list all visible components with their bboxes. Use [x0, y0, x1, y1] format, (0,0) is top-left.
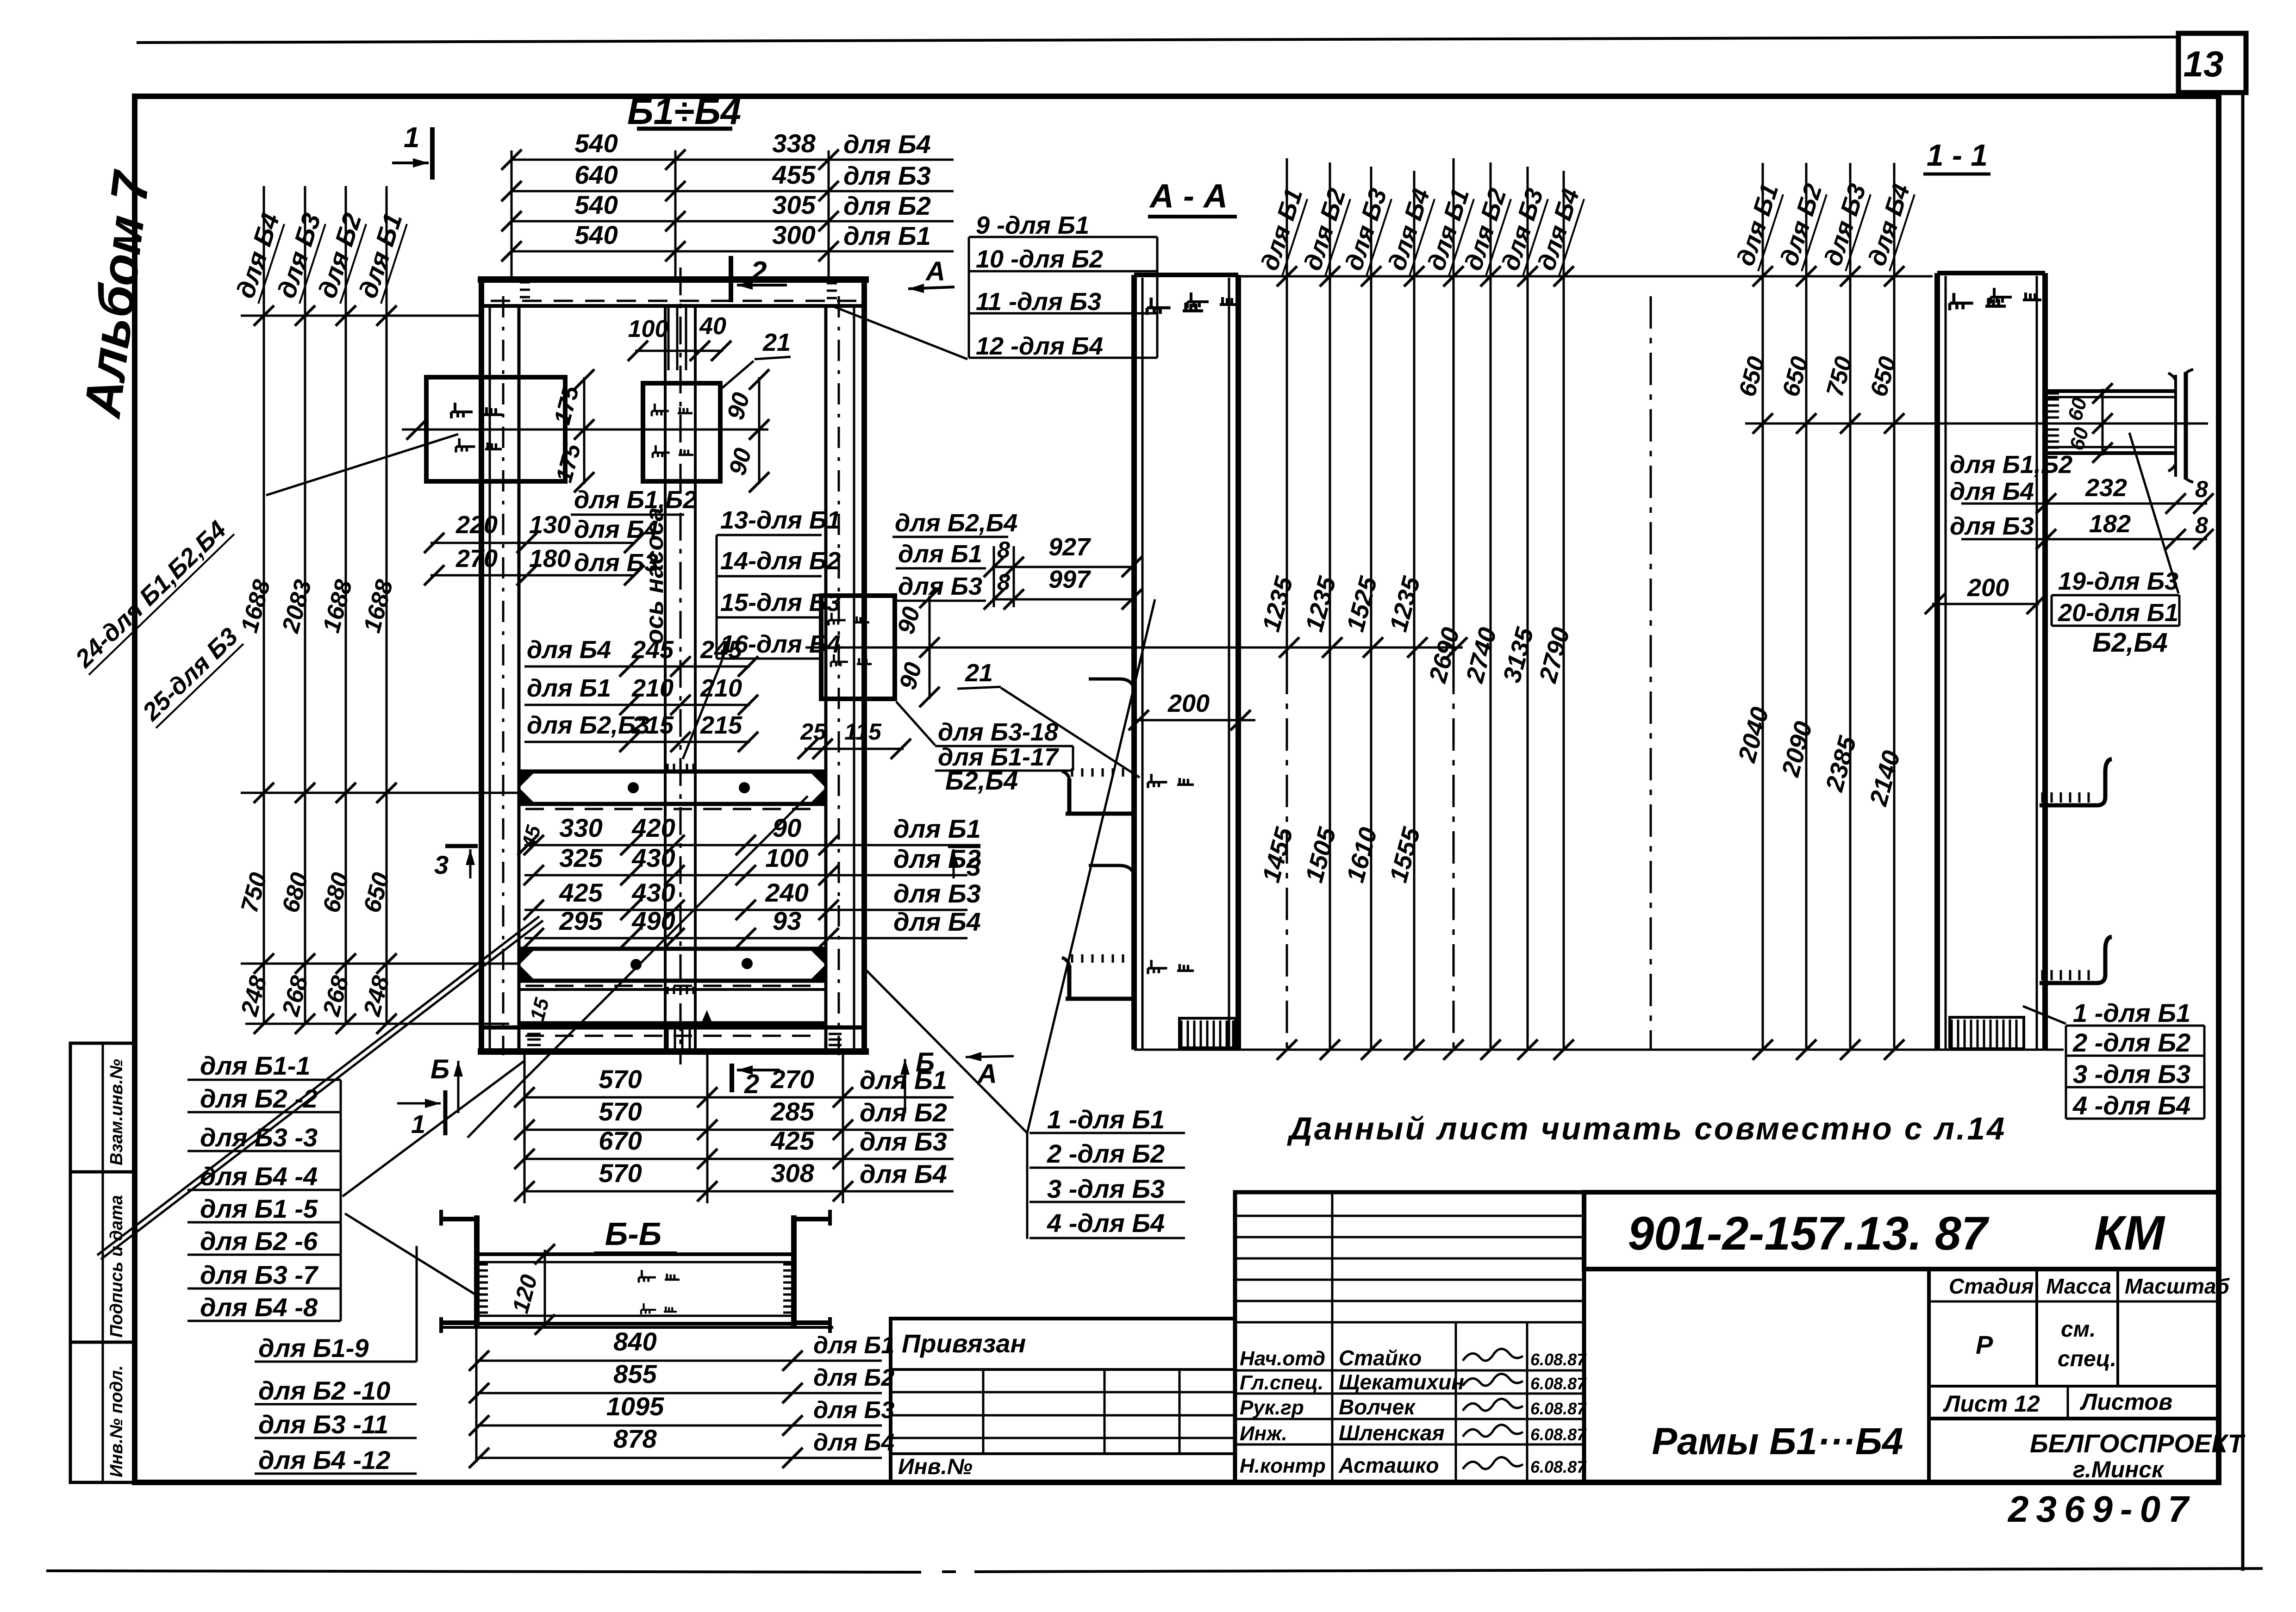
A-A tall dimension lines group1: [1286, 158, 1288, 662]
svg-text:для Б1-1: для Б1-1: [200, 1051, 311, 1080]
svg-text:1 -для Б1: 1 -для Б1: [1047, 1105, 1165, 1134]
plan top dim line 540/338 для Б4: [512, 159, 954, 161]
svg-text:Б-Б: Б-Б: [605, 1216, 661, 1252]
svg-text:21: 21: [965, 659, 993, 687]
svg-text:для Б2 -2: для Б2 -2: [200, 1084, 318, 1113]
svg-text:4 -для Б4: 4 -для Б4: [2072, 1091, 2190, 1120]
svg-text:285: 285: [770, 1097, 814, 1126]
gusset plate on right column: [821, 596, 895, 699]
pump strip hatch top: [668, 307, 670, 370]
A-A bottom hatch block: [1179, 1018, 1235, 1048]
diagonal leader to right bottom table: [866, 970, 1027, 1133]
leader to bottom right table: [2023, 1006, 2066, 1024]
bottom rows extension lines: [524, 1053, 526, 1203]
svg-text:для Б2,Б3: для Б2,Б3: [527, 711, 649, 739]
hatch right end bottom beam: [829, 1027, 842, 1030]
svg-text:для Б3: для Б3: [860, 1127, 947, 1156]
svg-text:для Б2: для Б2: [860, 1098, 947, 1127]
dim 25/115 near right column: [805, 748, 904, 750]
svg-text:ось насоса: ось насоса: [641, 507, 668, 644]
rivet dots upper bar: [628, 782, 639, 793]
plan bottom dimension rows 570/270: [524, 1096, 954, 1099]
svg-text:215: 215: [700, 711, 742, 739]
svg-text:для Б2,Б4: для Б2,Б4: [895, 509, 1017, 537]
left stamp boxes: [70, 1043, 135, 1482]
pump strip hatch bottom: [667, 1026, 669, 1050]
svg-text:420: 420: [631, 813, 675, 842]
dims 220/130 and 270/180 block: [430, 542, 636, 544]
svg-text:25: 25: [800, 719, 827, 745]
svg-text:220: 220: [455, 511, 498, 539]
leader to table 9-12: [833, 306, 967, 359]
second lower bar: [519, 988, 826, 991]
svg-text:для Б1: для Б1: [843, 221, 931, 250]
A-A bracket lower: [1089, 865, 1135, 996]
svg-text:8: 8: [2195, 476, 2208, 502]
svg-text:425: 425: [559, 878, 603, 907]
svg-text:Б2,Б4: Б2,Б4: [945, 766, 1018, 795]
svg-text:Рамы Б1···Б4: Рамы Б1···Б4: [1652, 1420, 1903, 1463]
svg-text:670: 670: [599, 1126, 642, 1155]
svg-text:4 -для Б4: 4 -для Б4: [1047, 1208, 1165, 1238]
svg-text:Рук.гр: Рук.гр: [1240, 1396, 1304, 1419]
left dim crossing line mid: [241, 792, 519, 794]
section mark 1 top left: [430, 127, 435, 180]
plan left column hatch at top: [520, 281, 530, 284]
dim 60/60: [2102, 389, 2104, 455]
svg-text:3: 3: [434, 850, 449, 879]
svg-text:40: 40: [699, 313, 726, 340]
svg-text:180: 180: [529, 545, 571, 573]
diagonal leader to left table: [343, 1061, 524, 1196]
svg-text:1 - 1: 1 - 1: [1927, 138, 1988, 172]
plan right column: [824, 306, 828, 1051]
stadiya massa masshtab header: [1584, 1267, 2219, 1271]
lower horizontal bar: [519, 947, 826, 951]
paper top edge line: [137, 37, 2178, 43]
1-1 weld marks top: [1950, 293, 2006, 310]
left dim crossing line top: [241, 315, 481, 317]
mid dimension rows 330/420/90: [524, 844, 967, 846]
svg-text:для Б1: для Б1: [893, 814, 981, 843]
svg-text:для Б1,Б2: для Б1,Б2: [1950, 451, 2072, 479]
svg-text:325: 325: [559, 843, 603, 872]
drawing frame border: [135, 96, 2219, 1482]
svg-text:308: 308: [771, 1158, 814, 1188]
extension lines 8 dim: [993, 546, 995, 607]
svg-text:Инв.№ подл.: Инв.№ подл.: [107, 1365, 126, 1477]
pump strip hatch at bars: [667, 764, 669, 771]
svg-text:425: 425: [770, 1126, 814, 1155]
dim 175/175 vertical: [583, 377, 586, 484]
svg-text:540: 540: [574, 129, 618, 158]
svg-text:490: 490: [631, 906, 675, 935]
svg-text:295: 295: [559, 906, 603, 935]
svg-text:для Б4: для Б4: [860, 1159, 947, 1189]
svg-text:для Б2: для Б2: [843, 191, 931, 220]
svg-text:232: 232: [2085, 474, 2127, 502]
svg-text:Инж.: Инж.: [1240, 1422, 1287, 1445]
svg-text:для Б1: для Б1: [898, 540, 982, 568]
plan left column: [479, 280, 484, 1053]
group2 dimension lines: [1762, 163, 1764, 1050]
svg-text:330: 330: [559, 813, 602, 842]
svg-text:2: 2: [744, 1069, 759, 1099]
svg-text:Привязан: Привязан: [902, 1329, 1026, 1358]
leader to table 19/20: [2129, 433, 2178, 593]
svg-text:А: А: [925, 256, 945, 286]
svg-text:для Б2 -6: для Б2 -6: [200, 1226, 318, 1256]
svg-text:2 -для Б2: 2 -для Б2: [1047, 1139, 1165, 1168]
upper horizontal bar: [519, 770, 826, 774]
svg-text:Масса: Масса: [2046, 1274, 2111, 1298]
svg-text:200: 200: [1167, 690, 1210, 717]
svg-text:997: 997: [1048, 566, 1092, 593]
privyazan grid: [891, 1391, 1235, 1394]
svg-text:338: 338: [772, 129, 816, 158]
left dim crossing line low: [241, 963, 519, 965]
plan top dim line 540/305 для Б2: [512, 220, 954, 223]
svg-text:для Б4 -8: для Б4 -8: [200, 1293, 318, 1322]
svg-text:Подпись и дата: Подпись и дата: [107, 1195, 126, 1338]
left dimension vertical lines: [263, 186, 265, 1024]
long diagonal pair B: [97, 916, 539, 1255]
svg-text:для Б4: для Б4: [527, 636, 611, 664]
list / listov row: [1929, 1385, 2219, 1388]
1-1 angle clip lower: [2040, 937, 2112, 983]
svg-text:для Б4 -4: для Б4 -4: [200, 1162, 318, 1191]
svg-text:570: 570: [599, 1158, 642, 1188]
B-B hatch left: [478, 1263, 488, 1266]
plan right column hatch at top: [827, 282, 837, 285]
svg-text:для Б3 -11: для Б3 -11: [258, 1410, 388, 1439]
svg-text:2: 2: [750, 256, 767, 288]
svg-text:21: 21: [762, 329, 791, 356]
A-A weld marks top: [1147, 298, 1203, 315]
main doc number box: [1584, 1192, 2219, 1269]
svg-text:для Б1 -5: для Б1 -5: [200, 1194, 318, 1223]
svg-text:для Б4: для Б4: [813, 1429, 894, 1456]
dim 100/40 above middle plate: [635, 350, 723, 352]
svg-text:245: 245: [700, 636, 742, 664]
svg-text:спец.: спец.: [2058, 1347, 2116, 1371]
svg-text:Асташко: Асташко: [1338, 1453, 1439, 1477]
svg-text:Стадия: Стадия: [1949, 1274, 2034, 1298]
gusset plate top-left: [426, 377, 565, 481]
svg-text:13-для Б1: 13-для Б1: [720, 506, 841, 534]
svg-text:для Б3: для Б3: [843, 161, 931, 190]
svg-text:3 -для Б3: 3 -для Б3: [1047, 1174, 1165, 1203]
section mark 3 left: [445, 844, 478, 848]
center line of flange piece: [1745, 423, 2208, 425]
1-1 column: [1934, 273, 1940, 1051]
svg-text:Б: Б: [430, 1054, 449, 1084]
svg-text:200: 200: [1967, 574, 2009, 602]
pump axis strip: [664, 306, 667, 1052]
svg-text:для Б2 -10: для Б2 -10: [258, 1376, 390, 1405]
leader to B-B section: [345, 1214, 479, 1297]
svg-text:210: 210: [700, 674, 742, 702]
fillet second bar: [702, 1011, 712, 1023]
plan bottom beam: [481, 1026, 864, 1030]
section mark 1 bottom-left: [443, 1090, 448, 1135]
svg-text:6.08.87: 6.08.87: [1530, 1425, 1587, 1444]
svg-text:570: 570: [599, 1097, 642, 1126]
weld marks in top-middle plate: [652, 404, 693, 416]
B-B web plates: [477, 1252, 794, 1256]
svg-text:для Б4: для Б4: [893, 907, 981, 936]
sheet number box 13: [2178, 33, 2246, 93]
leader from label 24 to plate: [266, 434, 458, 495]
leader from table 16 to pump strip: [683, 660, 722, 759]
svg-text:570: 570: [599, 1064, 642, 1094]
svg-text:20-для Б1: 20-для Б1: [2058, 599, 2178, 627]
svg-text:А - А: А - А: [1149, 178, 1228, 215]
svg-text:1: 1: [411, 1109, 425, 1139]
svg-text:13: 13: [2184, 44, 2224, 84]
svg-text:Б2,Б4: Б2,Б4: [2092, 628, 2168, 658]
svg-text:для Б1,Б2: для Б1,Б2: [574, 486, 697, 514]
section mark A bottom-right: [966, 1056, 1014, 1057]
B-B bottom outer line: [440, 1326, 833, 1329]
svg-text:182: 182: [2089, 510, 2131, 538]
svg-text:Щекатихин: Щекатихин: [1339, 1370, 1464, 1394]
svg-text:840: 840: [613, 1327, 656, 1356]
svg-text:для Б4: для Б4: [1950, 478, 2034, 505]
right plate center line long: [805, 647, 1463, 649]
long diagonal leader A: [525, 796, 808, 1078]
svg-text:Лист 12: Лист 12: [1943, 1391, 2040, 1417]
svg-text:11 -для Б3: 11 -для Б3: [976, 288, 1101, 316]
svg-text:для Б3: для Б3: [893, 879, 981, 908]
svg-text:6.08.87: 6.08.87: [1530, 1399, 1587, 1418]
top chord line between sections: [1238, 275, 1933, 278]
svg-text:для Б3 -3: для Б3 -3: [200, 1123, 318, 1152]
long thin leader up from table 1-4: [1027, 599, 1155, 1133]
svg-text:270: 270: [455, 545, 498, 573]
svg-text:для Б3-18: для Б3-18: [938, 718, 1058, 746]
section mark 2 bottom: [730, 1064, 734, 1092]
1-1 flange beam piece: [2045, 389, 2176, 393]
B-B middle weld marks: [639, 1270, 680, 1282]
svg-text:6.08.87: 6.08.87: [1530, 1350, 1587, 1369]
B-B dim 120: [544, 1250, 546, 1328]
svg-text:Данный лист читать совместн: Данный лист читать совместно с л.14: [1287, 1111, 2006, 1146]
svg-text:3 -для Б3: 3 -для Б3: [2073, 1059, 2190, 1089]
axis dash-dot line between sections: [1650, 296, 1652, 1050]
svg-text:430: 430: [631, 878, 675, 907]
svg-text:для Б3: для Б3: [1950, 512, 2034, 540]
svg-text:Масштаб: Масштаб: [2125, 1274, 2230, 1298]
svg-text:2 -для Б2: 2 -для Б2: [2072, 1028, 2190, 1057]
svg-text:540: 540: [574, 220, 618, 249]
signature table: [1235, 1192, 1584, 1482]
svg-text:1: 1: [404, 122, 419, 154]
svg-text:г.Минск: г.Минск: [2073, 1456, 2165, 1482]
svg-text:1 -для Б1: 1 -для Б1: [2073, 998, 2190, 1027]
svg-text:Инв.№: Инв.№: [898, 1455, 973, 1479]
svg-text:115: 115: [844, 719, 882, 745]
svg-text:855: 855: [613, 1359, 657, 1388]
dim 90/90 right plate: [929, 596, 931, 699]
outer right sheet edge line: [2241, 93, 2245, 1571]
baseline under sections: [1134, 1049, 2064, 1051]
fillets lower bar: [519, 949, 535, 965]
B-B dimension rows: [475, 1327, 478, 1463]
svg-text:для Б3: для Б3: [813, 1397, 894, 1424]
svg-text:927: 927: [1048, 533, 1092, 561]
fillets upper bar: [519, 772, 535, 787]
paper bottom edge line: [46, 1571, 921, 1572]
svg-text:для Б4: для Б4: [843, 130, 931, 159]
signature squiggles: [1463, 1349, 1523, 1361]
plan top dim line 540/300 для Б1: [512, 250, 954, 253]
plan top dim line 640/455 для Б3: [512, 190, 954, 193]
svg-text:см.: см.: [2061, 1317, 2096, 1342]
B-B hatch right: [783, 1263, 793, 1266]
hatch left end bottom beam: [527, 1027, 541, 1030]
svg-text:100: 100: [765, 843, 808, 872]
svg-text:2369-07: 2369-07: [2007, 1488, 2196, 1530]
svg-text:Взам.инв.№: Взам.инв.№: [107, 1059, 126, 1165]
svg-text:Р: Р: [1976, 1330, 1993, 1359]
svg-text:240: 240: [765, 878, 808, 907]
svg-text:для Б1-9: для Б1-9: [258, 1333, 369, 1363]
svg-text:305: 305: [772, 190, 816, 219]
section mark 3 right: [948, 844, 980, 848]
svg-text:14-для Б2: 14-для Б2: [720, 547, 841, 575]
svg-text:130: 130: [529, 511, 571, 539]
svg-text:878: 878: [613, 1424, 657, 1453]
plates center line: [402, 429, 768, 431]
svg-text:Б: Б: [916, 1047, 935, 1077]
svg-text:Листов: Листов: [2080, 1389, 2172, 1415]
svg-text:Нач.отд: Нач.отд: [1240, 1347, 1325, 1370]
svg-text:1095: 1095: [606, 1392, 664, 1421]
B-B left flange channel: [474, 1215, 480, 1327]
gusset plate top-middle: [643, 383, 720, 481]
dim 90/90 right of middle plate: [758, 377, 761, 484]
svg-text:для Б1: для Б1: [527, 674, 611, 702]
left dim crossing line bottom: [245, 1023, 509, 1025]
svg-text:БЕЛГОСПРОЕКТ: БЕЛГОСПРОЕКТ: [2030, 1429, 2246, 1458]
title block privyazan box: [891, 1319, 1235, 1482]
svg-text:430: 430: [631, 843, 675, 872]
svg-text:455: 455: [772, 160, 816, 189]
svg-text:Стайко: Стайко: [1339, 1346, 1422, 1370]
svg-text:540: 540: [574, 190, 618, 219]
svg-text:для Б4 -12: для Б4 -12: [258, 1445, 390, 1475]
B-B right flange channel: [791, 1215, 797, 1327]
svg-text:300: 300: [772, 220, 815, 249]
1-1 bottom hatch block: [1950, 1017, 2024, 1049]
svg-text:901-2-157.13. 87: 901-2-157.13. 87: [1628, 1207, 1990, 1260]
svg-text:100: 100: [628, 316, 668, 342]
svg-text:6.08.87: 6.08.87: [1530, 1374, 1587, 1393]
svg-text:КМ: КМ: [2094, 1206, 2166, 1260]
svg-text:Шленская: Шленская: [1339, 1421, 1445, 1445]
svg-text:для Б2: для Б2: [813, 1364, 894, 1391]
A-A bracket upper: [1089, 679, 1135, 811]
svg-text:для Б3 -7: для Б3 -7: [200, 1260, 319, 1289]
svg-text:для Б3: для Б3: [898, 573, 982, 600]
svg-text:93: 93: [773, 906, 801, 935]
rivet dots lower bar: [630, 959, 642, 970]
weld marks right plate: [829, 613, 869, 625]
svg-text:640: 640: [574, 160, 618, 189]
svg-text:10 -для Б2: 10 -для Б2: [976, 245, 1103, 273]
svg-text:Н.контр: Н.контр: [1240, 1455, 1326, 1477]
svg-text:19-для Б3: 19-для Б3: [2058, 567, 2178, 595]
A-A column: [1131, 275, 1137, 1050]
plan top beam: [478, 276, 869, 283]
svg-text:Б1÷Б4: Б1÷Б4: [627, 91, 741, 132]
plan top dimension extension lines: [511, 150, 513, 280]
1-1 angle clip upper: [2040, 759, 2112, 805]
svg-text:Волчек: Волчек: [1339, 1395, 1416, 1419]
svg-text:12 -для Б4: 12 -для Б4: [976, 332, 1103, 360]
svg-text:8: 8: [2195, 512, 2208, 538]
svg-text:для Б1: для Б1: [813, 1332, 894, 1359]
svg-text:Гл.спец.: Гл.спец.: [1240, 1371, 1323, 1394]
svg-text:6.08.87: 6.08.87: [1530, 1457, 1587, 1476]
section mark 2 top: [729, 256, 733, 302]
weld marks in top-left plate: [451, 403, 502, 418]
svg-text:9 -для Б1: 9 -для Б1: [976, 212, 1089, 239]
1-1 flange hatch on column edge: [2046, 392, 2059, 395]
svg-text:3: 3: [967, 852, 981, 881]
